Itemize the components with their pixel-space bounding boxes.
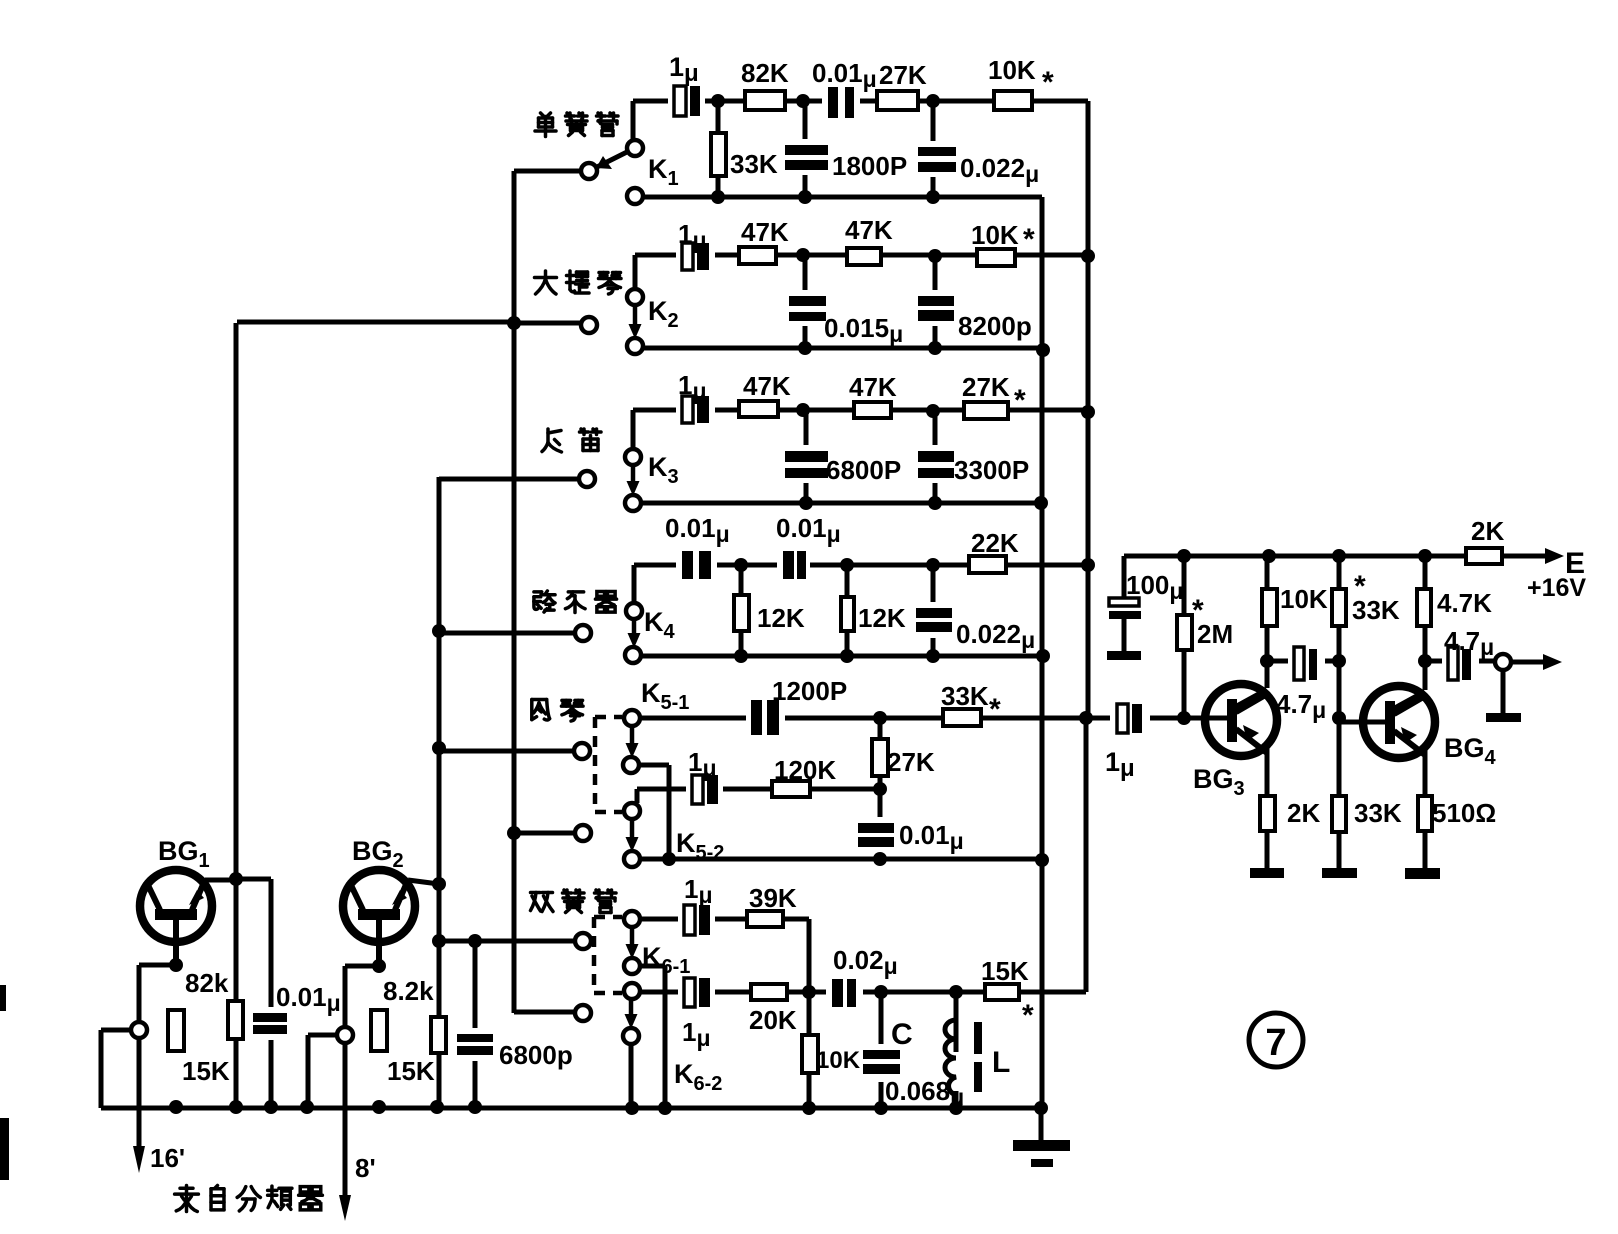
svg-text:47K: 47K xyxy=(845,215,893,245)
svg-text:120K: 120K xyxy=(774,755,836,785)
svg-text:10K: 10K xyxy=(816,1047,861,1074)
svg-text:*: * xyxy=(1042,66,1054,99)
svg-text:27K: 27K xyxy=(962,372,1010,402)
svg-text:82K: 82K xyxy=(741,58,789,88)
svg-text:33K: 33K xyxy=(730,149,778,179)
svg-text:*: * xyxy=(1014,384,1026,417)
svg-text:15K: 15K xyxy=(387,1056,435,1086)
svg-text:27K: 27K xyxy=(887,747,935,777)
svg-text:47K: 47K xyxy=(743,371,791,401)
svg-text:22K: 22K xyxy=(971,528,1019,558)
svg-text:10K: 10K xyxy=(988,55,1036,85)
svg-text:47K: 47K xyxy=(741,217,789,247)
svg-text:6800p: 6800p xyxy=(499,1040,573,1070)
svg-text:+16V: +16V xyxy=(1527,574,1586,602)
svg-text:8200p: 8200p xyxy=(958,311,1032,341)
svg-text:10K: 10K xyxy=(971,220,1019,250)
svg-text:15K: 15K xyxy=(981,956,1029,986)
svg-text:16': 16' xyxy=(150,1143,185,1173)
svg-text:*: * xyxy=(1022,999,1034,1032)
svg-text:L: L xyxy=(992,1046,1010,1079)
svg-text:1200P: 1200P xyxy=(772,676,847,706)
svg-text:20K: 20K xyxy=(749,1005,797,1035)
svg-text:4.7K: 4.7K xyxy=(1437,588,1492,618)
svg-text:39K: 39K xyxy=(749,883,797,913)
svg-text:8.2k: 8.2k xyxy=(383,976,434,1006)
svg-text:1800P: 1800P xyxy=(832,151,907,181)
svg-text:*: * xyxy=(1023,223,1035,256)
svg-text:7: 7 xyxy=(1265,1022,1286,1064)
svg-text:2K: 2K xyxy=(1471,516,1504,546)
svg-text:33K: 33K xyxy=(1354,798,1402,828)
svg-text:*: * xyxy=(989,693,1001,726)
svg-text:82k: 82k xyxy=(185,968,229,998)
svg-text:8': 8' xyxy=(355,1153,376,1183)
svg-text:12K: 12K xyxy=(757,603,805,633)
svg-text:3300P: 3300P xyxy=(954,455,1029,485)
svg-text:2M: 2M xyxy=(1197,619,1233,649)
svg-text:2K: 2K xyxy=(1287,798,1320,828)
svg-text:510Ω: 510Ω xyxy=(1432,798,1496,828)
svg-text:27K: 27K xyxy=(879,60,927,90)
svg-text:10K: 10K xyxy=(1280,584,1328,614)
svg-text:15K: 15K xyxy=(182,1056,230,1086)
svg-text:47K: 47K xyxy=(849,372,897,402)
svg-text:33K: 33K xyxy=(1352,595,1400,625)
svg-text:6800P: 6800P xyxy=(826,455,901,485)
svg-text:33K: 33K xyxy=(941,681,989,711)
svg-text:12K: 12K xyxy=(858,603,906,633)
svg-text:C: C xyxy=(891,1018,913,1051)
